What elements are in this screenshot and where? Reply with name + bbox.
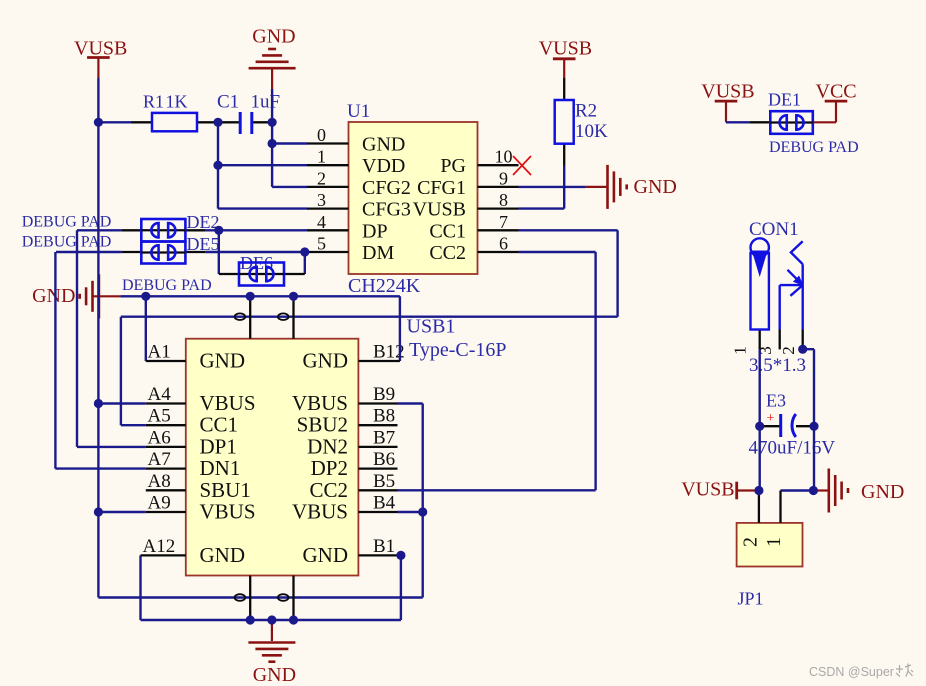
pin U1 right 7 xyxy=(478,229,519,231)
wire VUSB to A4 xyxy=(98,402,145,404)
wire VCC to DE1 xyxy=(813,121,836,123)
svg-text:VBUS: VBUS xyxy=(200,500,256,524)
resistor R1 body xyxy=(152,113,197,131)
pin USB1 B7 xyxy=(358,446,397,448)
debug pad DE5 xyxy=(141,242,185,264)
resistor R2 body xyxy=(555,100,574,144)
wire DP net to pin 4 xyxy=(205,229,307,231)
svg-text:A12: A12 xyxy=(143,536,176,557)
node DP/DE6 xyxy=(214,226,223,235)
wire CON1 pin2 down xyxy=(813,349,815,490)
pin USB1 shield bottom-left xyxy=(249,576,251,621)
svg-text:VCC: VCC xyxy=(816,81,857,103)
wire VBUS bottom xyxy=(98,596,422,598)
svg-text:CFG2: CFG2 xyxy=(362,177,411,199)
connector CON1 barrel jack xyxy=(751,238,804,329)
wire GND node vertical xyxy=(271,122,273,187)
wire VUSB stem (DE1) xyxy=(725,102,727,122)
wire to VDD pin 1 xyxy=(218,164,307,166)
svg-text:1: 1 xyxy=(763,537,785,547)
crossover oval xyxy=(235,594,246,601)
wire CC1 vertical (right) xyxy=(616,230,618,316)
pin U1 right 9 xyxy=(478,186,519,188)
pin U1 left 1 xyxy=(307,164,349,166)
svg-text:GND: GND xyxy=(303,543,349,567)
svg-text:GND: GND xyxy=(200,543,246,567)
debug pad DE2 xyxy=(141,219,185,242)
svg-text:A1: A1 xyxy=(148,342,171,363)
wire CC1 to A5 xyxy=(121,424,146,426)
svg-text:CSDN @Super: CSDN @Super xyxy=(809,665,894,679)
wire GND to A1 xyxy=(145,296,147,361)
svg-text:DP: DP xyxy=(362,220,388,242)
pin USB1 B12 xyxy=(358,360,400,362)
wire JP1 pin1 to GND xyxy=(781,489,814,491)
svg-text:GND: GND xyxy=(634,176,677,198)
wire DE2 left xyxy=(77,229,121,231)
wire DM to A7 xyxy=(55,467,145,469)
wire A12 down xyxy=(139,555,141,620)
wire to GND pin 0 xyxy=(272,142,307,144)
wire R2 to pin 8 xyxy=(519,207,565,209)
pin USB1 shield top-left xyxy=(249,296,251,338)
node VDD xyxy=(213,161,222,170)
pin CON1 3 xyxy=(779,330,781,350)
node GND/shield1 xyxy=(246,292,255,301)
wire DE6 right vertical xyxy=(304,252,306,274)
svg-text:B9: B9 xyxy=(373,384,395,405)
wire GND stem (left) xyxy=(93,295,120,297)
pin USB1 A9 xyxy=(146,511,186,513)
svg-text:DEBUG PAD: DEBUG PAD xyxy=(769,139,859,156)
capacitor E3 plates xyxy=(767,411,796,437)
pin U1 right 10 xyxy=(478,164,519,166)
node GND pin0 xyxy=(268,139,277,148)
svg-text:3: 3 xyxy=(317,190,326,210)
pin E3 right xyxy=(796,425,814,427)
wire pin 7 CC1 xyxy=(519,229,618,231)
svg-text:DN2: DN2 xyxy=(307,434,348,458)
wire VUSB stem (JP1) xyxy=(738,489,757,491)
pin USB1 A7 xyxy=(146,467,186,469)
connector USB1 Type-C body xyxy=(186,339,359,576)
pin E3 left xyxy=(760,425,780,427)
power symbol VUSB (R2) xyxy=(553,57,576,60)
svg-text:GND: GND xyxy=(303,349,349,373)
pin C1 right xyxy=(253,121,272,123)
node E3 right xyxy=(809,422,818,431)
svg-text:1: 1 xyxy=(731,346,750,355)
wire B4 to VBUS xyxy=(398,511,423,513)
svg-text:VUSB: VUSB xyxy=(681,479,734,501)
svg-text:E3: E3 xyxy=(766,391,786,411)
pin CON1 1 xyxy=(759,330,761,350)
pin JP1 1 xyxy=(779,491,781,523)
pin USB1 A6 xyxy=(146,446,186,448)
ground symbol (right of U1) xyxy=(608,165,627,209)
pin R2 top xyxy=(563,78,565,100)
pin USB1 shield bottom-right xyxy=(292,576,294,621)
svg-text:7: 7 xyxy=(499,212,508,232)
node GND/B1 xyxy=(396,551,405,560)
svg-text:B5: B5 xyxy=(373,471,395,492)
node VUSB/A4 xyxy=(94,399,103,408)
svg-text:GND: GND xyxy=(861,481,904,503)
node GND/shield2 xyxy=(289,292,298,301)
svg-text:USB1: USB1 xyxy=(407,316,456,338)
wire B9 to VBUS xyxy=(398,402,423,404)
svg-text:2: 2 xyxy=(779,346,798,355)
svg-text:JP1: JP1 xyxy=(738,589,764,609)
svg-text:5: 5 xyxy=(317,234,326,254)
svg-text:CC1: CC1 xyxy=(200,413,239,437)
op-amp U1 CH224K body xyxy=(349,122,478,274)
svg-text:B8: B8 xyxy=(373,406,395,427)
svg-text:CFG3: CFG3 xyxy=(362,199,411,221)
pin DE1 left xyxy=(750,121,770,123)
wire VUSB stem (top left) xyxy=(97,58,99,79)
svg-text:DEBUG PAD: DEBUG PAD xyxy=(122,277,212,294)
node GND/A1 xyxy=(141,292,150,301)
wire DM vertical (left) xyxy=(54,252,56,469)
node VUSB/A9 xyxy=(94,507,103,516)
pin USB1 B9 xyxy=(358,402,397,404)
wire GND stub (JP1) xyxy=(813,489,827,491)
svg-text:DP1: DP1 xyxy=(200,434,237,458)
svg-text:CON1: CON1 xyxy=(749,219,799,240)
power symbol VUSB (top left) xyxy=(87,56,110,59)
svg-text:8: 8 xyxy=(499,190,508,210)
wire CC2 vertical xyxy=(594,252,596,490)
wire to CFG3 pin 3 xyxy=(218,207,307,209)
svg-text:A8: A8 xyxy=(148,471,171,492)
pin USB1 A4 xyxy=(146,402,186,404)
svg-text:GND: GND xyxy=(362,134,405,156)
wire GND bus (bottom) xyxy=(141,619,401,621)
wire CC1 vertical (left) xyxy=(120,317,122,426)
capacitor C1 plates xyxy=(240,112,252,134)
wire DM net to pin 5 xyxy=(205,251,307,253)
pin USB1 B6 xyxy=(358,467,397,469)
svg-text:A7: A7 xyxy=(148,449,171,470)
ground symbol (JP1) xyxy=(829,469,848,513)
wire B1 down xyxy=(400,555,402,620)
svg-text:SBU2: SBU2 xyxy=(297,413,348,437)
node GND/JP1-1 xyxy=(809,486,818,495)
wire DP vertical (left) xyxy=(76,230,78,447)
pin USB1 A12 xyxy=(141,554,186,556)
node CON1 pin2 xyxy=(798,345,807,354)
wire VBUS vertical (right) xyxy=(422,404,424,598)
wire GND down to B12 xyxy=(399,296,401,361)
pin U1 right 6 xyxy=(478,251,519,253)
node GND stem xyxy=(267,615,276,624)
svg-text:VBUS: VBUS xyxy=(292,391,348,415)
wire GND to C1 node xyxy=(271,89,273,122)
svg-text:B7: B7 xyxy=(373,427,395,448)
wire pin 9 to GND xyxy=(519,186,586,188)
pin DE2 left xyxy=(121,229,141,231)
wire GND bus (middle) xyxy=(120,295,400,297)
wire VDD node vertical xyxy=(217,122,219,208)
power symbol VUSB (DE1) xyxy=(715,100,738,103)
ground symbol (left) xyxy=(80,274,99,318)
pin USB1 A8 xyxy=(146,489,186,491)
wire node to R1 xyxy=(98,121,131,123)
pin USB1 B5 xyxy=(358,489,397,491)
svg-text:U1: U1 xyxy=(347,101,370,122)
node GND/shield3 xyxy=(246,615,255,624)
svg-text:B1: B1 xyxy=(373,536,395,557)
svg-text:VBUS: VBUS xyxy=(292,500,348,524)
wire CC2 to B5 xyxy=(398,489,596,491)
wire GND stem (top) xyxy=(271,69,273,90)
svg-text:1: 1 xyxy=(317,147,326,167)
wire DE6 left vertical xyxy=(218,230,220,274)
node VUSB/JP1-2 xyxy=(754,486,763,495)
svg-text:VUSB: VUSB xyxy=(539,38,592,60)
wire DP to A6 xyxy=(77,446,146,448)
svg-text:CC1: CC1 xyxy=(429,220,466,242)
svg-text:SBU1: SBU1 xyxy=(200,478,251,502)
wire VUSB vertical (left) xyxy=(97,122,99,597)
pin DE6 left xyxy=(219,273,239,275)
wire CON1 pin1 down xyxy=(759,349,761,490)
svg-text:VBUS: VBUS xyxy=(200,391,256,415)
pin USB1 A1 xyxy=(146,360,186,362)
wire DE5 left xyxy=(56,251,121,253)
wire CON1 pin2 right xyxy=(803,348,814,350)
node R1/C1/VDD xyxy=(213,118,222,127)
svg-text:DM: DM xyxy=(362,242,394,264)
ground symbol (top, inverted) xyxy=(249,49,296,68)
svg-text:PG: PG xyxy=(440,155,466,177)
svg-text:A6: A6 xyxy=(148,427,171,448)
svg-text:10: 10 xyxy=(495,147,513,167)
svg-text:B6: B6 xyxy=(373,449,395,470)
pin U1 left 5 xyxy=(307,251,349,253)
svg-text:Type-C-16P: Type-C-16P xyxy=(409,339,506,361)
svg-text:10K: 10K xyxy=(575,121,608,142)
debug pad DE1 xyxy=(770,111,813,134)
pin DE5 right xyxy=(185,251,205,253)
svg-text:B4: B4 xyxy=(373,493,396,514)
svg-text:VUSB: VUSB xyxy=(701,81,754,103)
node VBUS/B4 xyxy=(418,507,427,516)
wire to CFG2 pin 2 xyxy=(272,186,307,188)
pin R1 right xyxy=(197,121,218,123)
wire GND stem (bottom) xyxy=(271,620,273,641)
pin U1 left 2 xyxy=(307,186,349,188)
wire R2 bottom xyxy=(563,166,565,209)
svg-text:A5: A5 xyxy=(148,406,171,427)
pin USB1 B8 xyxy=(358,424,397,426)
pin CON1 2 xyxy=(802,330,804,350)
svg-text:4: 4 xyxy=(317,212,326,232)
crossover oval xyxy=(235,313,246,320)
crossover oval xyxy=(278,594,289,601)
svg-text:1uF: 1uF xyxy=(251,92,281,113)
node C1/GND xyxy=(268,118,277,127)
svg-text:VUSB: VUSB xyxy=(413,199,466,221)
svg-text:GND: GND xyxy=(200,349,246,373)
pin R1 left xyxy=(131,121,152,123)
debug pad DE6 xyxy=(239,263,284,286)
wire VUSB down to R1 node xyxy=(97,78,99,122)
svg-text:6: 6 xyxy=(499,234,508,254)
svg-text:GND: GND xyxy=(253,664,296,686)
svg-text:R2: R2 xyxy=(575,101,597,122)
pin JP1 2 xyxy=(758,491,760,523)
svg-text:C1: C1 xyxy=(217,92,239,113)
node DM/DE6 xyxy=(300,247,309,256)
svg-text:9: 9 xyxy=(499,168,508,188)
svg-text:DN1: DN1 xyxy=(200,456,241,480)
svg-text:DP2: DP2 xyxy=(311,456,348,480)
node GND/shield4 xyxy=(289,615,298,624)
wire VCC stem xyxy=(835,102,837,122)
pin U1 left 4 xyxy=(307,229,349,231)
pin C1 left xyxy=(218,121,239,123)
no-connect X (pin 10) xyxy=(513,156,531,175)
svg-text:CH224K: CH224K xyxy=(348,275,421,297)
header JP1 body xyxy=(737,523,803,567)
pin U1 left 3 xyxy=(307,207,349,209)
pin DE2 right xyxy=(185,229,205,231)
node E3 left xyxy=(755,422,764,431)
power symbol VUSB (JP1) xyxy=(735,482,738,500)
svg-text:CC2: CC2 xyxy=(429,242,466,264)
svg-text:DE1: DE1 xyxy=(768,90,801,110)
wire VUSB to DE1 xyxy=(726,121,750,123)
pin R2 bottom xyxy=(563,144,565,166)
pin U1 right 8 xyxy=(478,207,519,209)
svg-text:VDD: VDD xyxy=(362,155,405,177)
pin DE6 right xyxy=(284,273,305,275)
svg-text:CC2: CC2 xyxy=(309,478,348,502)
crossover oval xyxy=(278,313,289,320)
svg-text:470uF/16V: 470uF/16V xyxy=(749,438,836,459)
svg-text:GND: GND xyxy=(32,285,75,307)
wire VUSB to A9 xyxy=(98,511,145,513)
svg-text:A9: A9 xyxy=(148,493,171,514)
pin USB1 shield top-right xyxy=(292,296,294,338)
svg-text:2: 2 xyxy=(317,168,326,188)
wire VUSB stem (R2) xyxy=(563,59,565,78)
svg-text:3.5*1.3: 3.5*1.3 xyxy=(749,355,806,376)
svg-text:1K: 1K xyxy=(166,92,188,112)
svg-text:2: 2 xyxy=(740,537,762,547)
pin USB1 B4 xyxy=(358,511,397,513)
node VUSB/R1 xyxy=(94,118,103,127)
svg-text:0: 0 xyxy=(317,125,326,145)
wire CC1 horizontal xyxy=(121,316,618,318)
watermark CJK glyph xyxy=(896,664,913,677)
wire pin 6 CC2 xyxy=(519,251,596,253)
pin USB1 B1 xyxy=(358,554,401,556)
svg-text:A4: A4 xyxy=(148,384,172,405)
svg-text:CFG1: CFG1 xyxy=(417,177,466,199)
pin USB1 A5 xyxy=(146,424,186,426)
svg-text:+: + xyxy=(767,411,775,426)
svg-text:R1: R1 xyxy=(143,92,164,112)
wire GND stub (pin 9) xyxy=(585,186,606,188)
pin U1 left 0 xyxy=(307,142,349,144)
pin DE5 left xyxy=(121,251,141,253)
svg-text:GND: GND xyxy=(252,26,295,48)
ground symbol (bottom) xyxy=(248,643,295,662)
power symbol VCC xyxy=(825,100,848,103)
